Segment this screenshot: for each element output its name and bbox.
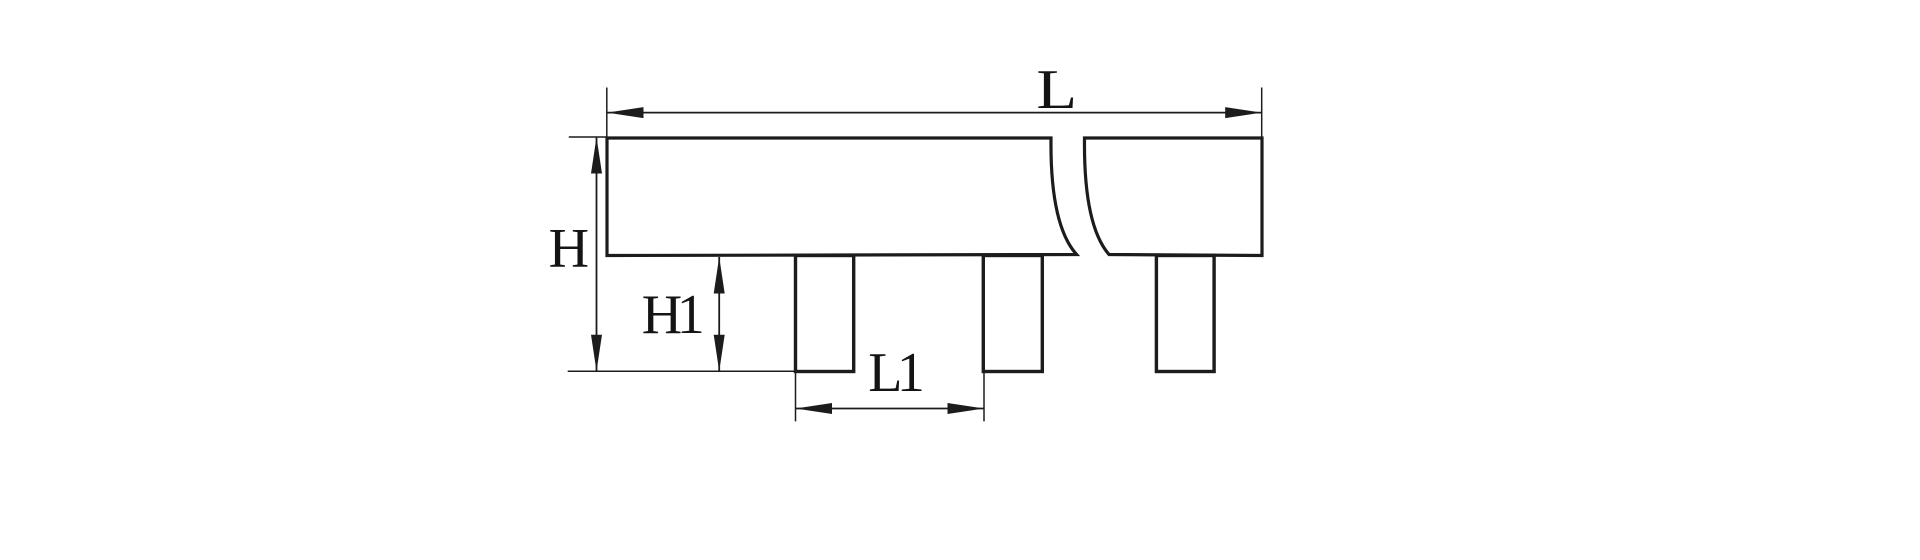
- pin 3: [1156, 256, 1214, 372]
- arrowhead L right: [1225, 107, 1262, 118]
- arrowhead L left: [607, 107, 644, 118]
- pin 2: [983, 256, 1042, 372]
- pin 1: [796, 256, 854, 372]
- busbar body left portion (broken view): [607, 138, 1077, 256]
- arrowhead H bottom: [591, 335, 602, 372]
- arrowhead L1 right: [948, 403, 985, 414]
- svg-text:H: H: [549, 218, 589, 280]
- dimension H line: [596, 137, 598, 371]
- svg-text:L: L: [1036, 59, 1077, 121]
- dimension L1 extension line left: [795, 373, 797, 421]
- dimension H top extension line: [569, 136, 607, 138]
- busbar body right portion (broken view): [1084, 138, 1262, 256]
- svg-text:H1: H1: [642, 284, 702, 346]
- arrowhead H1 bottom: [714, 335, 725, 372]
- dimension L1 line: [796, 408, 985, 410]
- dimension L line: [607, 112, 1262, 114]
- dimension H1 line: [718, 257, 720, 371]
- arrowhead H top: [591, 137, 602, 174]
- dimension H bottom level line: [568, 370, 796, 372]
- dimension L extension line left: [606, 88, 608, 138]
- dimension L1 extension line right: [983, 373, 985, 421]
- dimension L extension line right: [1261, 88, 1263, 138]
- arrowhead H1 top: [714, 257, 725, 294]
- arrowhead L1 left: [796, 403, 833, 414]
- svg-text:L1: L1: [868, 342, 922, 404]
